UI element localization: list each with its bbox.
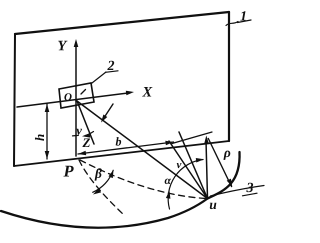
nu arc at origin xyxy=(85,132,93,136)
label 1 underline xyxy=(238,20,252,23)
curve 3 end curl xyxy=(208,152,240,199)
label 2 xyxy=(107,61,114,70)
label Z xyxy=(82,138,90,147)
Z axis xyxy=(75,101,77,156)
annotation arrowhead xyxy=(101,115,107,123)
element 2 rectangle xyxy=(59,83,94,108)
label O xyxy=(64,93,71,100)
u arc right arrowhead xyxy=(196,158,204,163)
plane 1 top edge xyxy=(15,12,229,34)
beta arc xyxy=(93,170,114,192)
label X xyxy=(142,87,152,96)
tick inside rectangle xyxy=(81,90,86,95)
label P xyxy=(63,166,73,177)
Y axis xyxy=(75,44,77,101)
plane 1 bottom edge xyxy=(14,141,229,166)
tangent line at u xyxy=(211,186,265,197)
line L1b from u xyxy=(169,141,208,199)
b right arrowhead xyxy=(165,141,173,146)
annotation arrow xyxy=(104,104,114,119)
dashed line P to u xyxy=(80,160,206,199)
label u xyxy=(210,203,217,209)
label nu at u xyxy=(177,163,182,168)
b left arrowhead xyxy=(78,151,86,156)
ray from O xyxy=(77,101,94,144)
nu arc arrowhead xyxy=(82,133,90,137)
label 1 xyxy=(240,11,245,20)
dashed line from P down xyxy=(79,160,124,215)
beta lower arrowhead xyxy=(93,189,101,195)
h top arrowhead xyxy=(45,104,50,112)
h dimension line xyxy=(46,104,48,159)
label 3 underline xyxy=(243,193,258,196)
line O to u xyxy=(77,101,208,199)
rho bottom arrowhead xyxy=(227,179,233,187)
label nu at origin xyxy=(76,129,82,135)
b dimension line xyxy=(78,142,174,154)
angle arc at u xyxy=(168,160,203,210)
line N normal at u xyxy=(206,140,208,199)
nu underbar xyxy=(73,134,79,137)
line L1a from u xyxy=(179,132,208,199)
label 3 xyxy=(246,183,253,192)
h bottom arrowhead xyxy=(45,151,50,159)
label alpha xyxy=(165,179,171,185)
label 2 leader xyxy=(92,72,106,83)
beta upper arrowhead xyxy=(109,170,114,178)
u arc up arrowhead xyxy=(166,191,171,199)
label h xyxy=(35,134,44,140)
label rho xyxy=(223,151,230,160)
Y axis arrowhead xyxy=(74,39,79,47)
label 1 leader xyxy=(226,22,238,26)
label beta xyxy=(95,168,102,180)
label Y xyxy=(58,41,67,50)
line N arrowhead xyxy=(204,136,209,144)
line M xyxy=(172,132,212,144)
curve 3 main arc xyxy=(1,199,208,228)
X axis arrowhead xyxy=(126,91,134,96)
rho line xyxy=(208,139,231,187)
plane 1 right edge xyxy=(228,12,230,141)
plane 1 left edge xyxy=(14,34,15,166)
label b xyxy=(116,137,121,145)
X axis xyxy=(17,93,130,107)
label 2 underline xyxy=(106,71,119,73)
